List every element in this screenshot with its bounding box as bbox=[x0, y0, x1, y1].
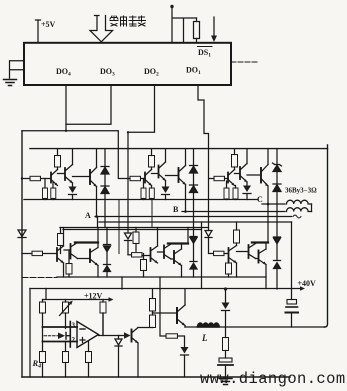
diode (hollow, to ground) bbox=[115, 336, 122, 378]
thermistor / pot bbox=[60, 300, 73, 329]
transistor Q3b (output) bbox=[179, 149, 186, 185]
wire to Q3b bbox=[166, 175, 179, 177]
wire input junction bar bbox=[69, 322, 71, 348]
transistor Q3a (output) bbox=[90, 149, 97, 187]
svg-text:L: L bbox=[201, 333, 208, 343]
wire emitter to node A bbox=[97, 187, 98, 228]
resistor (base bias) bbox=[166, 334, 185, 347]
ground bbox=[4, 80, 17, 86]
wire to Q3c bbox=[247, 174, 261, 176]
row1 common rail bbox=[24, 199, 258, 201]
transistor Q8 (chopper output) bbox=[177, 289, 185, 327]
wire to Q3a bbox=[73, 176, 91, 178]
wire break squiggle bbox=[293, 215, 301, 218]
node B label bbox=[173, 205, 179, 214]
wire phase C bbox=[262, 203, 285, 205]
resistor (base, A2) bbox=[32, 251, 43, 255]
cell A1: feed wire bbox=[22, 178, 30, 180]
capacitor (snubber) bbox=[218, 358, 233, 378]
resistor R (left column) bbox=[40, 300, 46, 352]
resistor (snubber) bbox=[223, 327, 229, 358]
resistor (top, C2) bbox=[234, 222, 240, 246]
label DO1 bbox=[186, 66, 201, 77]
resistor (collector, A1) bbox=[55, 149, 61, 170]
resistor (top, A2) bbox=[58, 228, 64, 254]
diode (A1) bbox=[69, 187, 77, 200]
transistor Q2a bbox=[65, 149, 73, 187]
diode (B1) bbox=[162, 187, 170, 200]
resistor pair (collector load) bbox=[150, 289, 156, 328]
label DO4 bbox=[56, 67, 71, 78]
wire bus line 4 bbox=[63, 229, 202, 231]
wire enclosure cell C2 left edge bbox=[201, 222, 203, 289]
wire DO3 drop bbox=[66, 85, 111, 124]
chip left pins bbox=[10, 61, 25, 78]
row2 supply rail bbox=[60, 227, 209, 229]
resistor (feedback lower) bbox=[86, 341, 92, 377]
svg-text:+5V: +5V bbox=[41, 20, 56, 29]
+40V label bbox=[298, 279, 317, 288]
row2 emitter rail bbox=[57, 276, 266, 278]
transistor Q5c bbox=[249, 244, 256, 259]
wire to darlington C bbox=[237, 251, 249, 253]
wire to darlington B bbox=[158, 251, 165, 253]
resistor (top, B2) bbox=[133, 228, 139, 252]
diode (feed B2, hollow) bbox=[125, 233, 132, 255]
transistor Q4b bbox=[142, 228, 158, 264]
clamp diodes row2 col2 bbox=[190, 228, 197, 278]
svg-text:3: 3 bbox=[72, 322, 76, 330]
transistor Q7 (row3 driver) bbox=[132, 328, 153, 378]
resistor (B1 lower left) bbox=[141, 179, 146, 200]
wire collector bus (thick) bbox=[168, 242, 188, 244]
resistor (A1 lower left) bbox=[43, 179, 48, 200]
right rail bbox=[325, 145, 328, 327]
diode (C1) bbox=[243, 186, 251, 200]
+12V label bbox=[84, 292, 103, 301]
transistor Q6a (output) bbox=[78, 228, 99, 278]
transistor Q5b bbox=[164, 244, 171, 259]
resistor (base, A1) bbox=[30, 176, 41, 180]
resistor (base, C2) bbox=[214, 251, 225, 255]
wire emitter to node C and row2 bbox=[267, 186, 269, 243]
resistor (emitter, C2) bbox=[226, 262, 232, 278]
resistor (collector, B1) bbox=[149, 149, 155, 170]
transistor Q2c bbox=[240, 149, 247, 186]
resistor (C1 lower right) bbox=[233, 186, 238, 200]
transistor Q2b bbox=[159, 149, 166, 187]
resistor (pull-up) bbox=[196, 18, 198, 43]
junction bbox=[224, 287, 227, 290]
wire enclosure left edge bbox=[29, 289, 31, 378]
diode (left rail, hollow) bbox=[18, 230, 26, 238]
diode (feed C2, hollow) bbox=[205, 222, 214, 254]
diode (filled down) bbox=[181, 347, 189, 377]
row3 top rail bbox=[30, 288, 292, 290]
op-amp U2 bbox=[77, 322, 99, 348]
left rail bbox=[21, 131, 23, 377]
transistor Q6c (output) bbox=[256, 243, 267, 289]
clamp diode pair column 1 bbox=[101, 149, 109, 228]
transistor Q4c bbox=[229, 246, 237, 278]
svg-text:B: B bbox=[173, 205, 179, 214]
data bus hollow arrow bbox=[90, 16, 113, 42]
+40V arrow bbox=[292, 286, 306, 290]
resistor (pot lower) bbox=[63, 342, 69, 378]
wire +40V column bbox=[291, 222, 293, 300]
transistor Q5a bbox=[71, 243, 78, 259]
IC U1 body bbox=[24, 43, 231, 85]
bottom rail bbox=[22, 376, 290, 378]
wire bbox=[43, 253, 58, 255]
pin 2 label bbox=[72, 336, 76, 344]
resistor (collector, C1) bbox=[232, 149, 238, 170]
transistor Q6b (output) bbox=[171, 228, 188, 278]
resistor (A1 lower right) bbox=[51, 183, 56, 200]
cell C1: resistor (base) bbox=[214, 176, 225, 180]
wire to output base bbox=[153, 312, 178, 314]
wire bus line 3 bbox=[99, 221, 292, 223]
transistor Q4a bbox=[57, 228, 64, 278]
wire link bbox=[152, 173, 159, 175]
label DO2 bbox=[144, 67, 159, 78]
diode (drive, filled right) bbox=[124, 332, 131, 338]
clamp diode pair column 2 bbox=[190, 149, 198, 228]
watermark bbox=[200, 370, 346, 388]
junction dots bbox=[21, 130, 270, 218]
wire bbox=[225, 178, 229, 180]
wire drops to row3 bbox=[122, 277, 160, 289]
wire non-inverting input bbox=[43, 341, 78, 343]
resistor (base, B2) bbox=[132, 253, 143, 257]
resistor (emitter, A2) bbox=[66, 250, 72, 277]
cell A2: feed wire bbox=[22, 253, 32, 255]
transistor Q1a bbox=[51, 170, 58, 186]
cell B1: resistor (base) bbox=[130, 176, 141, 180]
label DO3 bbox=[100, 67, 115, 78]
resistor (right column) bbox=[100, 300, 106, 336]
wire sense column bbox=[160, 289, 166, 336]
svg-text:www.diangon.com: www.diangon.com bbox=[200, 370, 346, 388]
wire collector bus (thick) bbox=[75, 241, 98, 243]
wire DO2 drop bbox=[128, 85, 155, 132]
transistor Q1b bbox=[145, 170, 152, 186]
zener diode pair column 3 bbox=[273, 149, 282, 204]
svg-text:A: A bbox=[85, 211, 91, 220]
clamp diodes row2 col3 bbox=[274, 204, 281, 289]
chip select net top right bbox=[170, 5, 196, 43]
wire link bbox=[235, 173, 241, 175]
clamp diodes row2 col1 bbox=[104, 228, 111, 278]
+12V rail with arrow bbox=[43, 289, 114, 302]
wire DO4 drop bbox=[22, 85, 130, 179]
winding coil bottom bbox=[287, 208, 312, 212]
+5V supply bbox=[36, 20, 56, 43]
wire coil common bbox=[311, 204, 313, 212]
L label bbox=[201, 333, 208, 343]
wire phase A bbox=[95, 216, 292, 218]
resistor (emitter, B2) bbox=[141, 254, 147, 278]
wire bbox=[128, 254, 132, 256]
transistor Q1c bbox=[228, 170, 235, 186]
wire chopper line bbox=[185, 326, 325, 328]
wire bbox=[224, 253, 229, 255]
ground (snubber) bbox=[219, 379, 232, 385]
label DS1 bbox=[198, 48, 211, 59]
wire rail extension bbox=[22, 277, 57, 279]
wire DO1 drop bbox=[198, 85, 214, 222]
transistor Q3c (output) bbox=[261, 149, 268, 187]
wire bbox=[41, 178, 52, 180]
diode (freewheel, filled down) bbox=[222, 289, 230, 327]
wire phase B bbox=[182, 211, 285, 213]
inductor L bbox=[198, 323, 220, 327]
row1 supply rail bbox=[30, 148, 328, 150]
wire emitter to node B bbox=[185, 185, 187, 212]
wire inverting input bbox=[43, 326, 78, 328]
strobe arrow into chip bbox=[211, 17, 217, 42]
wire to darlington A bbox=[64, 249, 71, 251]
svg-text:2: 2 bbox=[72, 336, 76, 344]
wire DO2 branch down bbox=[127, 132, 129, 233]
winding coil top bbox=[287, 200, 312, 204]
node C label bbox=[257, 195, 263, 204]
wire collector bus (thick) bbox=[252, 241, 268, 243]
resistor (B1 lower right) bbox=[149, 186, 154, 200]
pin 3 label bbox=[72, 322, 76, 330]
resistor R4 bbox=[40, 352, 46, 378]
resistor (C1 lower left) bbox=[224, 181, 229, 200]
label 36By3-3 motor bbox=[285, 187, 317, 195]
svg-text:C: C bbox=[257, 195, 263, 204]
wire bbox=[141, 178, 146, 180]
svg-text:36By3−3Ω: 36By3−3Ω bbox=[285, 187, 317, 195]
node A label bbox=[85, 211, 91, 220]
R4 label bbox=[32, 358, 42, 370]
chip right pin bbox=[231, 61, 259, 63]
data bus label 数据总线 (pseudo glyphs) bbox=[110, 16, 146, 26]
wire op-amp output bbox=[99, 313, 125, 336]
capacitor (40V electrolytic) bbox=[286, 300, 299, 328]
diode (reference, filled right) bbox=[44, 333, 70, 340]
wire link bbox=[58, 173, 66, 175]
wire column crossings bbox=[119, 200, 152, 254]
